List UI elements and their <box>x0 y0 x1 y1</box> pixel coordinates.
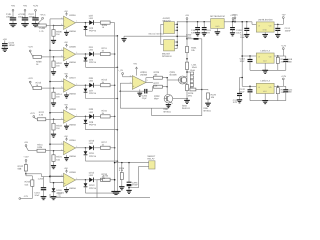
svg-text:PGP-B: PGP-B <box>89 155 97 158</box>
svg-text:100nF: 100nF <box>285 29 292 32</box>
svg-text:LM358: LM358 <box>69 124 76 127</box>
svg-text:+5V: +5V <box>64 41 68 44</box>
svg-text:D212: D212 <box>89 172 95 175</box>
svg-text:U200A: U200A <box>69 14 76 17</box>
svg-text:+5V: +5V <box>11 5 16 8</box>
svg-text:+VCC: +VCC <box>40 13 46 16</box>
svg-text:PGP-B: PGP-B <box>89 30 97 33</box>
svg-text:470nF: 470nF <box>132 184 139 187</box>
svg-text:R217: R217 <box>102 141 108 144</box>
svg-text:+12V: +12V <box>33 5 39 8</box>
svg-text:MEZZO: MEZZO <box>163 19 171 22</box>
svg-text:2: 2 <box>61 17 62 20</box>
svg-text:1M: 1M <box>56 127 59 130</box>
svg-text:D22: D22 <box>89 14 94 17</box>
svg-text:-: - <box>64 113 65 116</box>
svg-text:+5V: +5V <box>185 14 189 17</box>
svg-text:R218: R218 <box>56 124 62 127</box>
svg-text:100n: 100n <box>287 60 293 63</box>
svg-text:1: 1 <box>76 51 77 54</box>
svg-text:R242: R242 <box>18 165 24 168</box>
svg-text:+12V: +12V <box>23 156 29 159</box>
svg-text:R209: R209 <box>36 61 42 64</box>
svg-text:1: 1 <box>76 20 77 23</box>
svg-text:1: 1 <box>76 82 77 85</box>
svg-text:22pF: 22pF <box>142 97 148 100</box>
svg-text:-: - <box>64 144 65 147</box>
svg-text:ADJ: ADJ <box>263 90 267 93</box>
svg-text:U201A: U201A <box>69 77 76 80</box>
svg-text:PGP-B: PGP-B <box>89 92 97 95</box>
svg-text:U200B: U200B <box>69 45 76 48</box>
svg-text:-: - <box>64 176 65 179</box>
svg-text:3: 3 <box>61 55 62 58</box>
svg-text:LM358: LM358 <box>69 30 76 33</box>
svg-text:Mezzo interface: Mezzo interface <box>149 33 165 36</box>
svg-text:LED: LED <box>89 17 94 20</box>
svg-text:1: 1 <box>147 79 148 82</box>
svg-text:+5V: +5V <box>23 5 28 8</box>
svg-text:-: - <box>64 82 65 85</box>
svg-text:SHIELD: SHIELD <box>163 111 171 114</box>
svg-text:+5V: +5V <box>24 141 28 144</box>
svg-text:LM317LZ: LM317LZ <box>260 49 270 52</box>
svg-text:+12V: +12V <box>28 46 34 49</box>
svg-text:PNP: PNP <box>154 98 159 101</box>
svg-text:1M: 1M <box>56 64 59 67</box>
svg-text:-: - <box>64 19 65 22</box>
svg-text:10uF: 10uF <box>34 194 40 197</box>
svg-text:RELAY: RELAY <box>147 158 155 161</box>
svg-text:D24: D24 <box>89 46 94 49</box>
svg-text:U206B: U206B <box>69 171 76 174</box>
svg-text:ADJ: ADJ <box>263 60 267 63</box>
svg-text:+5V: +5V <box>133 62 137 65</box>
svg-text:PGP-B: PGP-B <box>89 187 97 190</box>
svg-text:2: 2 <box>61 48 62 51</box>
svg-text:R206: R206 <box>56 31 62 34</box>
svg-text:U206A: U206A <box>69 139 76 142</box>
svg-text:3: 3 <box>61 86 62 89</box>
svg-text:+24V: +24V <box>281 75 287 78</box>
svg-text:R211: R211 <box>102 47 108 50</box>
svg-text:MC78L05ACM: MC78L05ACM <box>210 15 225 18</box>
svg-text:X7R: X7R <box>206 32 211 35</box>
svg-text:SCREEN: SCREEN <box>162 55 172 58</box>
svg-text:BU406: BU406 <box>170 74 178 77</box>
svg-text:10uH: 10uH <box>190 69 196 72</box>
svg-text:PGP-B: PGP-B <box>89 61 97 64</box>
svg-text:+5V: +5V <box>64 104 68 107</box>
svg-text:+VCC: +VCC <box>230 14 236 17</box>
svg-text:GND: GND <box>263 29 268 32</box>
svg-text:LM358: LM358 <box>69 155 76 158</box>
svg-text:+5V: +5V <box>64 10 68 13</box>
svg-text:1: 1 <box>76 177 77 180</box>
svg-text:SHIELD: SHIELD <box>203 110 211 113</box>
svg-text:+5V: +5V <box>64 167 68 170</box>
svg-text:100nF: 100nF <box>9 44 16 47</box>
svg-text:SHIELD: SHIELD <box>182 107 191 110</box>
svg-text:3: 3 <box>61 117 62 120</box>
svg-text:1: 1 <box>76 145 77 148</box>
svg-text:R215: R215 <box>102 110 108 113</box>
svg-text:LM78L05ACM: LM78L05ACM <box>258 18 273 21</box>
svg-text:LM358: LM358 <box>69 92 76 95</box>
svg-text:R241: R241 <box>37 143 43 146</box>
svg-text:10uF: 10uF <box>240 36 246 39</box>
svg-text:-: - <box>64 50 65 53</box>
svg-text:LED: LED <box>89 111 94 114</box>
svg-text:D213: D213 <box>89 184 95 187</box>
svg-text:10uH: 10uH <box>192 66 198 69</box>
svg-text:100k: 100k <box>37 146 43 149</box>
svg-text:LED: LED <box>89 48 94 51</box>
svg-text:2: 2 <box>61 79 62 82</box>
svg-text:LED: LED <box>89 174 94 177</box>
svg-text:PGP-B: PGP-B <box>89 123 97 126</box>
svg-text:LM317LZ: LM317LZ <box>260 80 270 83</box>
svg-text:U201B: U201B <box>69 108 76 111</box>
svg-text:LM358: LM358 <box>69 61 76 64</box>
svg-text:2: 2 <box>61 174 62 177</box>
svg-text:X7R: X7R <box>233 101 238 104</box>
svg-text:SS14: SS14 <box>186 36 192 39</box>
svg-text:X7R: X7R <box>191 32 196 35</box>
svg-text:+12V: +12V <box>28 77 34 80</box>
svg-text:R210: R210 <box>56 62 62 65</box>
svg-text:+5V: +5V <box>3 38 8 41</box>
svg-text:1M: 1M <box>56 96 59 99</box>
svg-text:LM358: LM358 <box>69 187 76 190</box>
svg-text:+12V: +12V <box>30 112 36 115</box>
svg-text:-12V: -12V <box>23 195 28 198</box>
svg-text:2: 2 <box>61 110 62 113</box>
svg-text:+_IN: +_IN <box>118 69 123 72</box>
svg-text:LM358: LM358 <box>140 74 148 77</box>
svg-text:100n: 100n <box>287 91 293 94</box>
svg-text:-: - <box>133 79 134 82</box>
svg-text:R214: R214 <box>56 93 62 96</box>
svg-text:1M: 1M <box>56 33 59 36</box>
svg-text:PU08: PU08 <box>39 27 45 30</box>
svg-text:R224: R224 <box>56 156 62 159</box>
svg-text:LED: LED <box>89 80 94 83</box>
svg-text:+12V: +12V <box>281 45 287 48</box>
svg-text:+5V: +5V <box>64 72 68 75</box>
svg-text:LED: LED <box>89 142 94 145</box>
svg-text:R213: R213 <box>102 78 108 81</box>
svg-text:GND: GND <box>215 25 220 28</box>
svg-text:D211: D211 <box>89 152 95 155</box>
svg-text:3: 3 <box>61 148 62 151</box>
svg-text:3: 3 <box>130 74 131 77</box>
svg-text:R243: R243 <box>25 181 31 184</box>
svg-text:2: 2 <box>61 142 62 145</box>
svg-text:D28: D28 <box>89 108 94 111</box>
svg-text:D210: D210 <box>89 140 95 143</box>
svg-text:+5V: +5V <box>282 14 286 17</box>
svg-text:+5V: +5V <box>64 135 68 138</box>
svg-text:R213: R213 <box>36 82 42 85</box>
svg-text:1.25V: 1.25V <box>38 177 44 180</box>
svg-text:D26: D26 <box>89 77 94 80</box>
svg-text:1: 1 <box>76 114 77 117</box>
svg-text:10uF: 10uF <box>240 90 246 93</box>
